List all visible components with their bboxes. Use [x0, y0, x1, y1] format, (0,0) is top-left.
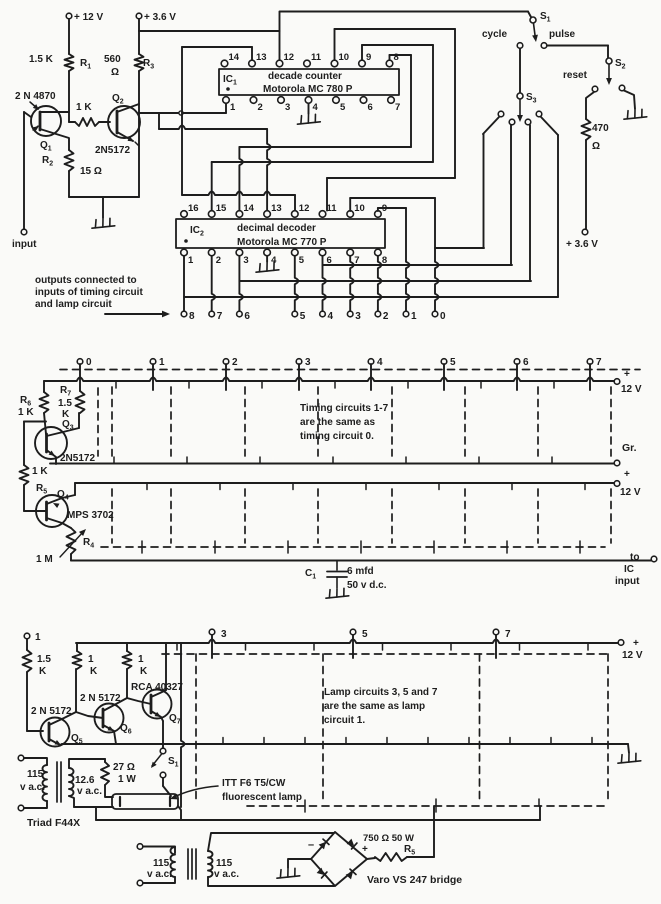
svg-text:2: 2: [383, 311, 389, 322]
svg-text:27 Ω: 27 Ω: [113, 762, 135, 773]
svg-text:560: 560: [104, 54, 121, 65]
svg-text:Ω: Ω: [111, 67, 119, 78]
svg-text:14: 14: [229, 52, 240, 63]
svg-text:1.5 K: 1.5 K: [29, 54, 54, 65]
svg-text:circuit 1.: circuit 1.: [324, 715, 365, 726]
svg-text:Timing circuits 1-7: Timing circuits 1-7: [300, 403, 389, 414]
svg-text:115: 115: [27, 769, 44, 780]
svg-text:3: 3: [305, 357, 311, 368]
svg-text:+: +: [624, 369, 630, 380]
svg-text:Ω: Ω: [592, 141, 600, 152]
svg-text:v a.c.: v a.c.: [77, 786, 102, 797]
svg-text:+: +: [624, 469, 630, 480]
svg-text:1.5: 1.5: [37, 654, 51, 665]
svg-text:7: 7: [596, 357, 602, 368]
svg-text:Varo VS 247 bridge: Varo VS 247 bridge: [367, 874, 462, 886]
svg-text:1 W: 1 W: [118, 774, 136, 785]
svg-text:2: 2: [232, 357, 238, 368]
svg-text:0: 0: [86, 357, 92, 368]
svg-text:–: –: [308, 839, 314, 851]
svg-text:9: 9: [366, 52, 371, 63]
svg-text:2 N 5172: 2 N 5172: [31, 706, 72, 717]
svg-text:Motorola MC 780 P: Motorola MC 780 P: [263, 84, 353, 95]
svg-text:10: 10: [354, 203, 365, 214]
svg-text:1 K: 1 K: [32, 466, 48, 477]
svg-text:timing circuit 0.: timing circuit 0.: [300, 431, 374, 442]
svg-text:and lamp circuit: and lamp circuit: [35, 299, 112, 310]
svg-text:MPS 3702: MPS 3702: [67, 510, 114, 521]
svg-text:fluorescent lamp: fluorescent lamp: [222, 792, 302, 803]
svg-text:115: 115: [216, 858, 233, 869]
svg-text:750 Ω 50 W: 750 Ω 50 W: [363, 833, 414, 844]
svg-text:6: 6: [244, 311, 250, 322]
svg-text:1: 1: [35, 632, 41, 643]
svg-text:8: 8: [394, 52, 399, 63]
svg-text:IC: IC: [624, 564, 634, 575]
svg-text:6 mfd: 6 mfd: [347, 566, 374, 577]
svg-text:6: 6: [523, 357, 529, 368]
svg-text:3: 3: [221, 629, 227, 640]
svg-text:16: 16: [188, 203, 199, 214]
svg-text:4: 4: [313, 102, 319, 113]
svg-text:12: 12: [284, 52, 295, 63]
svg-text:1: 1: [159, 357, 165, 368]
svg-text:11: 11: [311, 52, 322, 63]
svg-text:v a.c.: v a.c.: [20, 782, 45, 793]
svg-text:1: 1: [88, 654, 94, 665]
svg-text:ITT F6 T5/CW: ITT F6 T5/CW: [222, 778, 286, 789]
svg-text:5: 5: [299, 255, 305, 266]
svg-text:10: 10: [339, 52, 350, 63]
svg-text:input: input: [12, 239, 37, 250]
svg-text:2N5172: 2N5172: [95, 145, 130, 156]
svg-text:1 K: 1 K: [18, 407, 34, 418]
svg-text:12 V: 12 V: [622, 650, 643, 661]
svg-text:5: 5: [362, 629, 368, 640]
svg-text:+: +: [633, 638, 639, 649]
svg-text:v a.c.: v a.c.: [147, 869, 172, 880]
svg-text:12.6: 12.6: [75, 775, 95, 786]
svg-text:Motorola MC 770 P: Motorola MC 770 P: [237, 237, 327, 248]
svg-text:13: 13: [271, 203, 282, 214]
svg-text:1: 1: [411, 311, 417, 322]
svg-text:+ 3.6 V: + 3.6 V: [566, 239, 598, 250]
svg-text:RCA 40327: RCA 40327: [131, 682, 183, 693]
svg-text:K: K: [90, 666, 98, 677]
svg-text:14: 14: [243, 203, 254, 214]
svg-text:11: 11: [327, 203, 338, 214]
svg-text:2 N 4870: 2 N 4870: [15, 91, 56, 102]
svg-text:7: 7: [217, 311, 223, 322]
svg-text:2N5172: 2N5172: [60, 453, 95, 464]
svg-text:5: 5: [300, 311, 306, 322]
svg-text:K: K: [140, 666, 148, 677]
svg-text:cycle: cycle: [482, 29, 507, 40]
svg-text:1: 1: [188, 255, 194, 266]
svg-text:outputs connected to: outputs connected to: [35, 275, 137, 286]
svg-text:0: 0: [440, 311, 446, 322]
svg-text:2 N 5172: 2 N 5172: [80, 693, 121, 704]
svg-text:1.5: 1.5: [58, 398, 72, 409]
svg-text:470: 470: [592, 123, 609, 134]
svg-text:12: 12: [299, 203, 310, 214]
svg-text:13: 13: [256, 52, 267, 63]
svg-text:12 V: 12 V: [621, 384, 642, 395]
svg-text:4: 4: [377, 357, 383, 368]
svg-text:Gr.: Gr.: [622, 442, 637, 454]
svg-text:1: 1: [230, 102, 236, 113]
svg-text:+ 12 V: + 12 V: [74, 12, 104, 23]
svg-text:pulse: pulse: [549, 29, 576, 40]
svg-text:+: +: [362, 844, 368, 855]
svg-text:are the same as: are the same as: [300, 417, 375, 428]
svg-text:1 M: 1 M: [36, 554, 53, 565]
svg-text:115: 115: [153, 858, 170, 869]
svg-text:4: 4: [328, 311, 334, 322]
svg-text:3: 3: [355, 311, 361, 322]
svg-text:inputs of timing circuit: inputs of timing circuit: [35, 287, 143, 298]
svg-text:15 Ω: 15 Ω: [80, 166, 102, 177]
svg-text:Lamp circuits 3, 5 and 7: Lamp circuits 3, 5 and 7: [324, 687, 438, 698]
svg-text:7: 7: [505, 629, 511, 640]
svg-text:5: 5: [450, 357, 456, 368]
svg-text:2: 2: [216, 255, 221, 266]
svg-text:2: 2: [258, 102, 263, 113]
svg-text:12 V: 12 V: [620, 487, 641, 498]
svg-text:7: 7: [395, 102, 400, 113]
svg-text:1 K: 1 K: [76, 102, 92, 113]
svg-text:50 v d.c.: 50 v d.c.: [347, 580, 387, 591]
svg-text:Triad F44X: Triad F44X: [27, 817, 80, 829]
svg-text:input: input: [615, 576, 640, 587]
svg-text:3: 3: [243, 255, 248, 266]
svg-text:to: to: [630, 552, 639, 563]
svg-text:reset: reset: [563, 70, 588, 81]
svg-text:+ 3.6 V: + 3.6 V: [144, 12, 176, 23]
svg-text:decade counter: decade counter: [268, 71, 342, 82]
svg-text:3: 3: [285, 102, 290, 113]
svg-text:1: 1: [138, 654, 144, 665]
svg-text:v a.c.: v a.c.: [214, 869, 239, 880]
svg-text:6: 6: [368, 102, 373, 113]
svg-text:8: 8: [189, 311, 195, 322]
svg-text:K: K: [39, 666, 47, 677]
svg-text:15: 15: [216, 203, 227, 214]
svg-text:are the same as lamp: are the same as lamp: [324, 701, 425, 712]
svg-text:decimal decoder: decimal decoder: [237, 223, 316, 234]
svg-text:5: 5: [340, 102, 346, 113]
